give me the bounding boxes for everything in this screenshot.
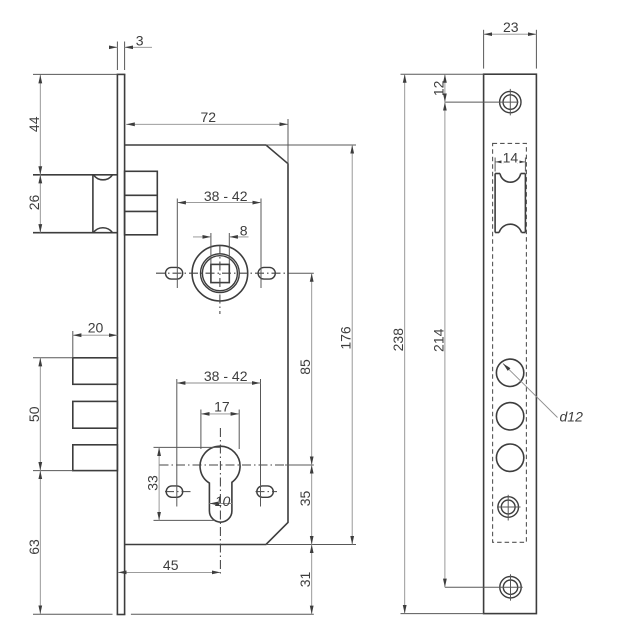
svg-text:63: 63	[26, 539, 42, 555]
screw post oval bottom-left	[166, 486, 183, 497]
dimension 12 leader to screw	[445, 101, 519, 103]
svg-text:20: 20	[88, 320, 104, 336]
dimension 176 line	[351, 145, 353, 545]
dimension 3 left tail	[111, 46, 118, 48]
latch opening bottom stubs	[495, 232, 499, 234]
latch bolt top bevel arc	[94, 175, 113, 180]
follower hub outer circle	[192, 245, 248, 301]
latch opening bottom arc	[499, 224, 521, 232]
dimension 23 extensions	[483, 30, 485, 69]
faceplate top extension	[33, 73, 117, 75]
top screw vertical mark	[509, 89, 511, 116]
dimension 10 line	[209, 503, 232, 505]
dashed cutout zone	[493, 143, 527, 542]
svg-text:35: 35	[297, 491, 313, 507]
deadbolt tooth 2	[73, 401, 118, 428]
dimension 214 leader to bottom screw	[445, 586, 523, 588]
dimension 17 extensions	[200, 410, 202, 450]
screw post oval top-right	[258, 267, 275, 279]
latch tail block	[125, 171, 158, 235]
middle screw horizontal mark	[497, 506, 521, 508]
cylinder horizontal centerline	[160, 464, 286, 466]
dimension 8 right tail	[229, 236, 248, 238]
faceplate bottom cap	[117, 614, 126, 616]
plate bottom extension	[401, 613, 484, 615]
top screw hole outer	[500, 91, 521, 112]
dimension 33 bottom extension	[154, 519, 215, 521]
bottom screw hole outer	[500, 577, 521, 598]
cylinder hole circle 1	[496, 359, 523, 386]
svg-text:176: 176	[338, 326, 354, 350]
dimension 85 extension at follower center	[289, 272, 314, 274]
faceplate top cap	[117, 73, 126, 75]
bottom-left oval centerline	[165, 491, 191, 493]
bottom reference extension right	[131, 613, 314, 615]
bottom-right oval centerline	[256, 491, 278, 493]
dimension 3 right tail	[125, 46, 152, 48]
cylinder vertical centerline	[219, 428, 221, 576]
dimension 45 line	[118, 571, 220, 573]
latch opening left edge	[494, 174, 496, 233]
body bottom edge extension	[266, 544, 356, 546]
dimension 72 right extension	[287, 119, 289, 164]
deadbolt bottom extension line	[33, 470, 73, 472]
svg-text:38 - 42: 38 - 42	[204, 188, 248, 204]
screw post oval bottom-right	[257, 486, 274, 497]
body top edge extension	[266, 144, 356, 146]
dimension 85 extension at cylinder center	[285, 464, 314, 466]
svg-text:214: 214	[430, 328, 446, 352]
bottom screw hole inner	[503, 580, 517, 594]
dimension 38-42 top line	[177, 202, 261, 204]
middle screw hole inner	[501, 500, 515, 514]
dimension 12 line	[444, 74, 446, 102]
svg-text:238: 238	[390, 328, 406, 352]
svg-text:26: 26	[26, 195, 42, 211]
svg-text:10: 10	[215, 493, 231, 509]
dimension 20 line	[73, 334, 118, 336]
dimension 238 line	[404, 74, 406, 613]
left dimension chain 63	[39, 471, 41, 614]
svg-text:23: 23	[503, 19, 519, 35]
svg-text:d12: d12	[560, 409, 584, 425]
dimension 3 extension right	[124, 42, 126, 71]
faceplate front outline	[484, 74, 537, 613]
bottom screw vertical mark	[510, 574, 512, 600]
svg-text:45: 45	[163, 557, 179, 573]
svg-text:17: 17	[214, 399, 230, 415]
svg-text:8: 8	[240, 223, 248, 239]
latch bolt bottom bevel arc	[93, 228, 112, 233]
screw post oval top-left	[166, 267, 183, 279]
left dimension chain 50	[39, 358, 41, 471]
svg-text:50: 50	[26, 406, 42, 422]
dimension 20 extensions	[72, 331, 74, 358]
svg-text:12: 12	[430, 80, 446, 96]
dimension 31 line	[311, 545, 313, 615]
svg-text:3: 3	[136, 33, 144, 49]
middle screw hole outer	[498, 497, 519, 518]
deadbolt tooth 1	[73, 358, 118, 385]
dimension 17 line	[201, 413, 239, 415]
follower hub ring inner	[202, 256, 237, 291]
dimension 14 extensions	[494, 158, 496, 172]
dimension 72 line	[126, 123, 288, 125]
svg-text:72: 72	[201, 109, 217, 125]
latch tail divider 1	[125, 194, 158, 196]
dimension 8 left tail	[193, 236, 211, 238]
dimension 8 extensions	[210, 233, 212, 264]
deadbolt top extension line	[33, 357, 73, 359]
latch bolt rear face	[92, 175, 94, 233]
lock body outline	[125, 145, 288, 545]
faceplate strip right edge	[124, 74, 126, 614]
dimension 14 line	[495, 161, 525, 163]
latch opening right edge	[524, 174, 526, 233]
svg-text:33: 33	[145, 475, 161, 491]
follower square spindle hole	[211, 264, 229, 282]
dimension 214 line	[444, 102, 446, 587]
cylinder hole circle 3	[496, 444, 523, 471]
svg-text:31: 31	[297, 572, 313, 588]
dimension 38-42 bottom extensions	[176, 379, 178, 507]
cylinder hole circle 2	[496, 403, 523, 430]
dimension 14 label	[502, 153, 520, 164]
d12 leader line	[503, 364, 558, 418]
dimension 35 line	[311, 465, 313, 545]
dimension 85 line	[311, 273, 313, 465]
dimension 3 extension left	[116, 42, 118, 71]
dimension 38-42 top extensions	[176, 199, 178, 289]
svg-text:14: 14	[503, 150, 519, 166]
plate top extension	[401, 73, 484, 75]
dimension 33 top extension	[154, 446, 221, 448]
dimension 33 line	[158, 447, 160, 520]
bottom reference extension left	[33, 613, 113, 615]
svg-text:38 - 42: 38 - 42	[204, 368, 248, 384]
latch tail divider 2	[125, 210, 158, 212]
euro cylinder profile	[200, 446, 240, 522]
svg-text:85: 85	[297, 359, 313, 375]
latch opening top stubs	[495, 173, 500, 175]
left dimension chain 44	[39, 75, 41, 175]
follower vertical centerline	[219, 245, 221, 314]
follower horizontal centerline	[156, 272, 289, 274]
faceplate strip left edge	[116, 74, 118, 614]
left dimension chain 26	[39, 175, 41, 233]
dimension 38-42 bottom line	[177, 382, 261, 384]
top screw hole inner	[503, 95, 518, 110]
follower hub ring outer	[201, 254, 240, 293]
dimension 23 line	[484, 33, 537, 35]
latch bolt top edge	[33, 174, 117, 176]
middle screw vertical mark	[507, 495, 509, 521]
latch opening top arc	[500, 174, 521, 183]
deadbolt tooth 3	[73, 445, 118, 471]
svg-text:44: 44	[26, 116, 42, 132]
latch bolt bottom edge	[33, 232, 117, 234]
